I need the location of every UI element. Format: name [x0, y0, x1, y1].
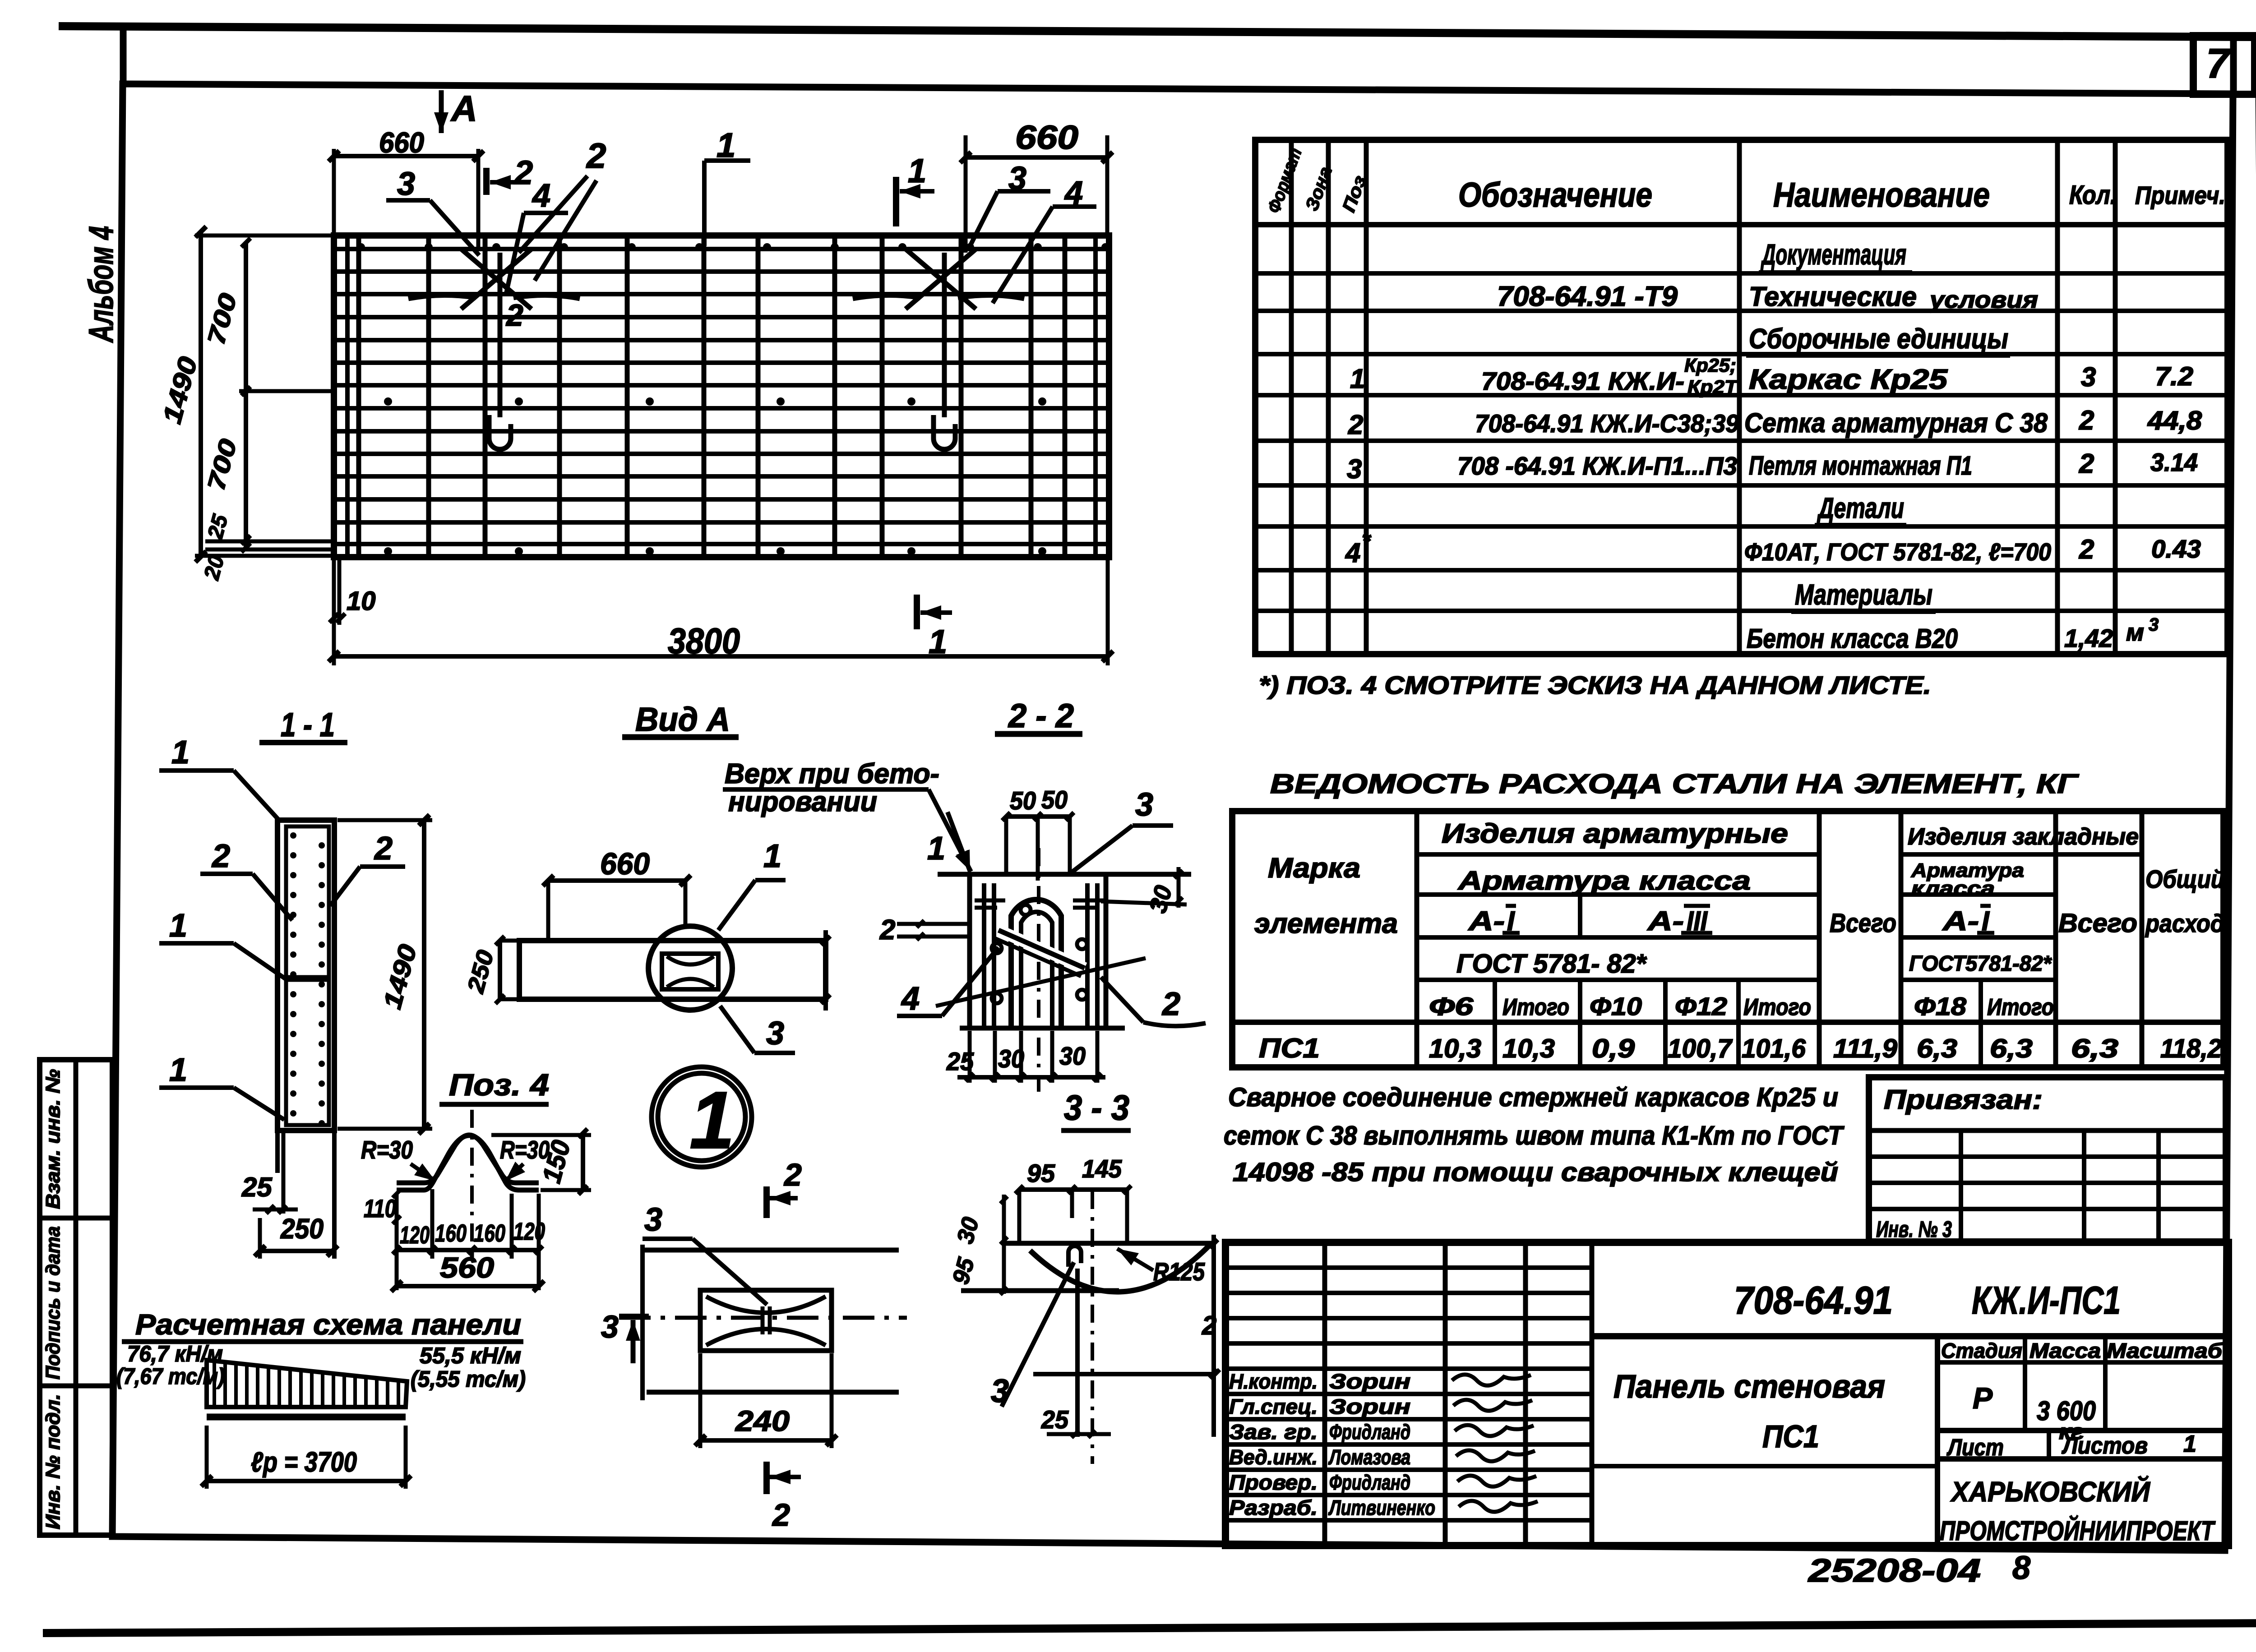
svg-text:3: 3 [991, 1373, 1009, 1409]
dim 25 loop [1047, 1432, 1111, 1436]
note underline and leader arrow [723, 787, 929, 792]
loop sketch small eye [1068, 1246, 1081, 1267]
dim 25 section 1-1 [253, 1208, 298, 1212]
section 1-1 transverse wire dots [290, 832, 296, 839]
section 3-3 recess center notch [761, 1306, 765, 1334]
svg-text:Провер.: Провер. [1229, 1471, 1318, 1494]
sheet number box [2193, 36, 2255, 94]
svg-text:Разраб.: Разраб. [1229, 1496, 1318, 1519]
svg-text:Петля монтажная П1: Петля монтажная П1 [1749, 451, 1972, 480]
loop sketch dim 95 145 [1019, 1187, 1127, 1192]
svg-text:Гл.спец.: Гл.спец. [1229, 1395, 1318, 1418]
section 2-2 left edge [967, 874, 972, 1028]
svg-text:160: 160 [474, 1220, 505, 1247]
mesh horizontal wires [334, 269, 1109, 274]
page top edge line [59, 26, 2251, 37]
title block doc number cell line [1592, 1333, 2228, 1339]
dim 10 bottom-left [337, 559, 342, 625]
dim 95 loop [1002, 1246, 1006, 1294]
svg-text:6,3: 6,3 [1990, 1034, 2033, 1063]
svg-text:3: 3 [397, 166, 415, 202]
section 2-2 right bar [1085, 883, 1090, 1028]
svg-text:2: 2 [513, 154, 533, 191]
svg-text:расход: расход [2145, 909, 2224, 937]
svg-text:ℓр = 3700: ℓр = 3700 [251, 1447, 357, 1478]
svg-text:Расчетная схема панели: Расчетная схема панели [135, 1308, 521, 1341]
svg-text:Технические: Технические [1749, 281, 1917, 312]
svg-text:Стадия: Стадия [1941, 1339, 2022, 1362]
svg-text:1: 1 [171, 734, 190, 771]
svg-text:(5,55 тс/м): (5,55 тс/м) [411, 1366, 526, 1392]
svg-text:55,5 кН/м: 55,5 кН/м [420, 1343, 521, 1368]
svg-text:Масса: Масса [2029, 1339, 2101, 1362]
section mark 1 bottom [914, 595, 920, 629]
svg-text:708-64.91 КЖ.И-: 708-64.91 КЖ.И- [1481, 367, 1684, 395]
svg-text:110: 110 [364, 1194, 396, 1223]
svg-text:3: 3 [644, 1202, 662, 1238]
svg-text:25: 25 [1041, 1405, 1069, 1434]
dim 30 right section 2-2 [1177, 867, 1181, 908]
svg-text:3: 3 [2149, 615, 2159, 635]
svg-text:7: 7 [2206, 41, 2231, 87]
svg-text:120: 120 [400, 1222, 430, 1249]
svg-text:Верх при бето-: Верх при бето- [725, 758, 939, 789]
svg-text:Сетка арматурная С 38: Сетка арматурная С 38 [1744, 408, 2048, 438]
svg-text:50: 50 [1041, 785, 1068, 814]
svg-text:95: 95 [1027, 1159, 1055, 1187]
section mark 1 top [893, 177, 899, 226]
svg-text:Литвиненко: Литвиненко [1328, 1496, 1435, 1519]
left stamp strip divider row 2 [40, 1384, 112, 1389]
svg-text:Итого: Итого [1987, 994, 2054, 1020]
поз.4 centerline [470, 1110, 474, 1250]
svg-text:3 - 3: 3 - 3 [1064, 1088, 1129, 1127]
loop sketch bar line [1075, 1269, 1080, 1437]
svg-text:250: 250 [280, 1214, 324, 1245]
dim 2 gap left [897, 922, 970, 926]
svg-text:Обозначение: Обозначение [1458, 176, 1652, 214]
svg-text:Инв. № подл.: Инв. № подл. [42, 1394, 64, 1529]
svg-text:708-64.91: 708-64.91 [1734, 1279, 1893, 1322]
svg-text:Зав. гр.: Зав. гр. [1229, 1420, 1318, 1444]
section 2-2 bottom extension lines [968, 1031, 972, 1083]
svg-text:25208-04: 25208-04 [1807, 1553, 1981, 1589]
svg-text:Изделия закладные: Изделия закладные [1908, 824, 2139, 850]
section 2-2 right edge [1104, 874, 1109, 1028]
svg-text:м: м [2126, 619, 2144, 646]
dim 250 section 1-1 [260, 1249, 333, 1253]
поз.4 bent bar profile [397, 1135, 539, 1183]
section 2-2 short dashes [975, 899, 1005, 903]
svg-text:А-: А- [1467, 906, 1505, 936]
svg-text:2: 2 [783, 1157, 802, 1192]
svg-text:ГОСТ 5781- 82*: ГОСТ 5781- 82* [1456, 949, 1647, 978]
spec table header row line [1255, 222, 2228, 227]
detail bubble circle [652, 1067, 752, 1167]
title block left row lines [1225, 1265, 1592, 1270]
svg-text:Итого: Итого [1502, 994, 1569, 1020]
section 2-2 top chord line [938, 872, 1191, 877]
section 2-2 left bar [982, 883, 986, 1028]
svg-text:120: 120 [513, 1218, 545, 1245]
svg-text:1,42: 1,42 [2064, 624, 2113, 652]
svg-text:30: 30 [998, 1044, 1024, 1073]
svg-text:3: 3 [2081, 362, 2096, 392]
svg-text:2: 2 [2079, 448, 2094, 479]
svg-text:2: 2 [505, 298, 523, 332]
svg-text:Материалы: Материалы [1795, 578, 1932, 611]
svg-text:Вед.инж.: Вед.инж. [1229, 1445, 1318, 1469]
svg-text:Марка: Марка [1268, 853, 1360, 884]
dim 3800 bottom [334, 654, 1108, 659]
svg-text:3: 3 [766, 1015, 784, 1052]
svg-text:Ф10АТ, ГОСТ 5781-82, ℓ=700: Ф10АТ, ГОСТ 5781-82, ℓ=700 [1744, 539, 2051, 566]
svg-text:Наименование: Наименование [1773, 176, 1990, 214]
view A bar outline [519, 941, 826, 999]
привязан verticals [1959, 1131, 1963, 1241]
svg-text:Р: Р [1973, 1381, 1993, 1415]
left stamp strip box [40, 1060, 112, 1535]
spec table verticals [1289, 140, 1294, 654]
svg-text:2: 2 [2079, 405, 2094, 435]
mesh vertical wires [356, 235, 361, 557]
section 2-2 centerline [1037, 848, 1040, 1092]
svg-text:Фридланд: Фридланд [1329, 1420, 1410, 1444]
svg-text:Кол.: Кол. [2069, 180, 2117, 210]
svg-text:1: 1 [927, 831, 945, 867]
svg-text:ХАРЬКОВСКИЙ: ХАРЬКОВСКИЙ [1950, 1476, 2150, 1508]
svg-text:1: 1 [2183, 1431, 2196, 1457]
dim 150 поз.4 [581, 1133, 585, 1190]
svg-text:Масштаб: Масштаб [2107, 1339, 2223, 1362]
load diagram baseline [207, 1414, 406, 1421]
dim 25 30 30 bottom [957, 1075, 1105, 1080]
svg-text:Примеч.: Примеч. [2135, 181, 2225, 209]
ведомость main verticals [1415, 811, 1419, 1067]
section 3-3 recess curves [706, 1297, 826, 1313]
view A recess rect [662, 954, 718, 989]
ведомость outer [1232, 811, 2224, 1067]
section 2-2 U loop [1011, 900, 1061, 1029]
lifting loop hook [489, 415, 511, 449]
svg-text:2 - 2: 2 - 2 [1008, 697, 1074, 734]
svg-text:Поз. 4: Поз. 4 [449, 1068, 549, 1102]
left stamp strip divider row 1 [40, 1216, 112, 1221]
dim 660 view A [548, 878, 685, 883]
svg-text:1: 1 [908, 152, 926, 189]
lifting loop stem [498, 253, 503, 417]
svg-text:101,6: 101,6 [1742, 1034, 1806, 1063]
section 3-3 top line [641, 1248, 899, 1253]
svg-text:Панель стеновая: Панель стеновая [1613, 1369, 1885, 1405]
svg-text:10: 10 [347, 586, 376, 616]
section 2-2 diagonal anchor bar [995, 930, 1085, 976]
svg-text:Каркас Кр25: Каркас Кр25 [1749, 364, 1948, 395]
view A detail circle [648, 926, 732, 1010]
dim lp=3700 [207, 1479, 406, 1483]
svg-text:0.43: 0.43 [2151, 535, 2201, 563]
dim 250 view A [498, 941, 502, 999]
svg-text:Изделия арматурные: Изделия арматурные [1442, 818, 1788, 849]
привязан header line [1869, 1128, 2226, 1133]
section 1-1 mesh sheet lower [286, 980, 329, 1125]
svg-text:КЖ.И-ПС1: КЖ.И-ПС1 [1972, 1279, 2121, 1322]
view A recess curves [667, 956, 714, 964]
svg-text:Фридланд: Фридланд [1329, 1471, 1410, 1494]
svg-text:25: 25 [241, 1172, 273, 1202]
привязан row lines [1869, 1154, 2226, 1159]
svg-text:50: 50 [1010, 786, 1036, 815]
svg-text:10,3: 10,3 [1429, 1034, 1481, 1063]
svg-text:Ф6: Ф6 [1429, 992, 1474, 1020]
svg-text:0,9: 0,9 [1592, 1034, 1635, 1063]
svg-text:Кр25;: Кр25; [1684, 355, 1736, 376]
svg-text:2: 2 [772, 1497, 790, 1532]
svg-text:Документация: Документация [1761, 238, 1906, 271]
lifting loop cross [461, 249, 532, 309]
svg-text:708 -64.91 КЖ.И-П1...П3: 708 -64.91 КЖ.И-П1...П3 [1457, 452, 1737, 480]
svg-text:Ф18: Ф18 [1914, 992, 1967, 1020]
svg-text:Ф12: Ф12 [1675, 992, 1727, 1020]
svg-text:класса: класса [1911, 877, 1995, 900]
section mark 2 top [483, 168, 490, 195]
svg-text:Зорин: Зорин [1329, 1370, 1410, 1393]
svg-text:560: 560 [440, 1251, 494, 1284]
svg-text:Бетон класса В20: Бетон класса В20 [1747, 623, 1958, 654]
svg-text:R=30: R=30 [361, 1135, 413, 1164]
svg-text:111,9: 111,9 [1833, 1034, 1897, 1063]
svg-text:4: 4 [532, 178, 550, 214]
dim 700 700 25 left [244, 243, 248, 551]
dim 1490 section 1-1 [422, 820, 426, 1129]
svg-text:Итого: Итого [1743, 994, 1811, 1020]
svg-text:1 - 1: 1 - 1 [281, 706, 335, 743]
svg-text:*: * [1362, 528, 1372, 554]
svg-text:Сборочные единицы: Сборочные единицы [1749, 323, 2008, 355]
loop sketch bottom horizontal [1033, 1372, 1215, 1376]
svg-text:Инв. № 3: Инв. № 3 [1876, 1217, 1952, 1242]
svg-text:2: 2 [586, 136, 606, 175]
frame right edge extension to page top [2230, 38, 2237, 96]
svg-text:145: 145 [1082, 1154, 1122, 1183]
title block left verticals [1322, 1242, 1327, 1546]
svg-text:Детали: Детали [1817, 492, 1904, 524]
svg-text:Всего: Всего [1830, 909, 1896, 938]
svg-text:708-64.91 КЖ.И-С38;39: 708-64.91 КЖ.И-С38;39 [1475, 409, 1739, 438]
svg-text:6,3: 6,3 [2071, 1034, 2118, 1063]
section 2-2 bottom chord line [960, 1026, 1125, 1031]
svg-text:2: 2 [1161, 986, 1180, 1022]
ведомость sub verticals [1578, 895, 1582, 937]
svg-text:ГОСТ5781-82*: ГОСТ5781-82* [1909, 952, 2052, 976]
svg-text:ПС1: ПС1 [1259, 1033, 1320, 1063]
lifting loop cross [906, 249, 976, 309]
привязан box [1869, 1077, 2226, 1241]
lifting loop curved dashes [408, 295, 476, 299]
svg-text:7.2: 7.2 [2155, 362, 2193, 391]
section 3-3 left edge [640, 1245, 645, 1400]
page bottom edge line [43, 1623, 2256, 1633]
svg-text:1: 1 [1350, 364, 1365, 394]
svg-text:Листов: Листов [2061, 1433, 2148, 1459]
svg-text:ПС1: ПС1 [1762, 1419, 1819, 1454]
svg-text:условия: условия [1928, 287, 2038, 313]
svg-text:Зорин: Зорин [1329, 1395, 1410, 1418]
frame left edge extension to page top [120, 28, 127, 86]
svg-text:R125: R125 [1153, 1257, 1205, 1286]
svg-text:Сварное соединение стержней: Сварное соединение стержней каркасов Кр2… [1228, 1083, 1838, 1112]
dim 50 50 top [1006, 814, 1070, 819]
svg-text:44,8: 44,8 [2147, 406, 2202, 435]
svg-text:2: 2 [2079, 534, 2094, 564]
section 1-1 outer walls [277, 820, 334, 1131]
svg-text:660: 660 [379, 126, 424, 159]
loop sketch R125 arc [1030, 1244, 1211, 1292]
spec table row lines [1255, 271, 2228, 276]
section 3-3 recess rect [700, 1290, 832, 1351]
svg-text:Взам. инв. №: Взам. инв. № [42, 1069, 64, 1209]
svg-text:4: 4 [1345, 538, 1360, 568]
dim 660 top-left [334, 154, 478, 158]
dim 660 top-right [966, 155, 1107, 160]
title block outer [1225, 1242, 2228, 1546]
svg-text:2: 2 [211, 838, 230, 874]
svg-text:Привязан:: Привязан: [1884, 1084, 2043, 1115]
title block стадия header lines [1935, 1336, 1940, 1546]
ведомость row lines [1417, 852, 1819, 857]
load diagram hatching [213, 1361, 216, 1407]
svg-text:Альбом 4: Альбом 4 [82, 226, 120, 343]
svg-text:10,3: 10,3 [1502, 1034, 1555, 1063]
mesh node dots bottom row [384, 547, 392, 555]
dim 110 поз.4 [395, 1194, 399, 1223]
svg-text:2: 2 [374, 831, 393, 867]
lifting loop hook [934, 415, 955, 449]
svg-text:8: 8 [2012, 1550, 2030, 1586]
dim extension lines left [195, 234, 333, 238]
svg-text:4: 4 [901, 981, 920, 1017]
svg-text:118,2: 118,2 [2160, 1034, 2222, 1063]
left stamp strip divider vertical [74, 1060, 79, 1535]
svg-text:А-: А- [1646, 906, 1684, 936]
svg-text:Общий: Общий [2145, 865, 2224, 893]
load diagram trapezoid [207, 1360, 407, 1407]
loop sketch centerline [1091, 1191, 1094, 1464]
svg-text:Подпись и дата: Подпись и дата [42, 1226, 64, 1380]
svg-text:3: 3 [1135, 787, 1153, 823]
section mark 2 top of 3-3 [763, 1186, 770, 1218]
svg-text:25: 25 [946, 1047, 974, 1075]
section 2-2 bar section dots [1021, 905, 1031, 915]
svg-text:2: 2 [1348, 410, 1363, 440]
svg-text:1: 1 [763, 838, 781, 874]
svg-text:А-: А- [1942, 906, 1979, 936]
svg-text:3: 3 [601, 1309, 619, 1344]
loop sketch right dim line [1211, 1235, 1216, 1437]
svg-text:1: 1 [929, 623, 947, 660]
svg-text:660: 660 [1015, 119, 1078, 156]
panel outline [334, 235, 1109, 557]
svg-text:1: 1 [169, 1052, 187, 1088]
svg-text:3: 3 [1347, 454, 1362, 484]
svg-text:2: 2 [879, 914, 895, 946]
svg-text:Лист: Лист [1946, 1435, 2004, 1461]
svg-text:Всего: Всего [2058, 909, 2137, 938]
dim 560 поз.4 [397, 1284, 539, 1288]
lifting loop curved dashes [853, 295, 920, 299]
lifting loop stem [942, 253, 947, 417]
svg-text:30: 30 [1059, 1042, 1086, 1070]
loop sketch top line [1004, 1241, 1213, 1246]
svg-text:ВЕДОМОСТЬ РАСХОДА СТАЛИ Н: ВЕДОМОСТЬ РАСХОДА СТАЛИ НА ЭЛЕМЕНТ, КГ [1270, 769, 2080, 799]
svg-text:2: 2 [1202, 1311, 1216, 1340]
svg-text:Арматура класса: Арматура класса [1457, 866, 1751, 895]
svg-text:240: 240 [735, 1405, 790, 1437]
svg-text:100,7: 100,7 [1668, 1034, 1733, 1063]
view A bar right end ticks [823, 930, 828, 1011]
section 1-1 mesh sheet upper [286, 826, 329, 977]
mesh node dots top row [357, 243, 365, 251]
section 2-2 long thin diagonal [936, 958, 1146, 1006]
svg-text:14098 -85 при помощи сваро: 14098 -85 при помощи сварочных клещей [1233, 1158, 1838, 1187]
svg-text:1: 1 [689, 1075, 735, 1166]
dim 30 loop [1002, 1195, 1006, 1246]
section 3-3 centerline [619, 1316, 907, 1320]
mesh border wires [334, 247, 1109, 251]
dim 120 160 160 120 [397, 1248, 539, 1252]
svg-text:6,3: 6,3 [1917, 1034, 1957, 1063]
svg-text:3.14: 3.14 [2150, 448, 2198, 476]
svg-text:Ломазова: Ломазова [1328, 1445, 1410, 1469]
dim 1490 left [199, 232, 203, 557]
svg-text:Н.контр.: Н.контр. [1229, 1370, 1318, 1393]
svg-text:708-64.91 -Т9: 708-64.91 -Т9 [1497, 281, 1678, 312]
spec table outer [1255, 140, 2228, 654]
section 3-3 bottom line [647, 1390, 899, 1395]
svg-text:элемента: элемента [1254, 908, 1398, 939]
svg-text:*) ПОЗ. 4 СМОТРИТЕ ЭСКИЗ: *) ПОЗ. 4 СМОТРИТЕ ЭСКИЗ НА ДАННОМ ЛИСТЕ… [1259, 671, 1931, 699]
svg-text:Кр2Т: Кр2Т [1687, 376, 1739, 397]
svg-text:Вид А: Вид А [635, 701, 730, 738]
svg-text:Ф10: Ф10 [1590, 992, 1642, 1020]
svg-text:А: А [450, 88, 477, 129]
svg-text:3800: 3800 [668, 621, 740, 661]
section 1-1 bottom toe lines [275, 1131, 280, 1173]
section mark 2 bottom of 3-3 [763, 1462, 770, 1494]
svg-text:1: 1 [169, 908, 187, 944]
svg-text:ПРОМСТРОЙНИИПРОЕКТ: ПРОМСТРОЙНИИПРОЕКТ [1940, 1515, 2215, 1546]
loop sketch second line [961, 1288, 1119, 1293]
svg-text:сеток С 38 выполнять швом т: сеток С 38 выполнять швом типа К1-Кт по … [1224, 1121, 1845, 1150]
view arrow A [439, 90, 444, 133]
dim 240 [700, 1438, 832, 1443]
svg-text:660: 660 [600, 847, 650, 881]
mesh node dots middle row [384, 397, 392, 406]
svg-text:160: 160 [435, 1220, 467, 1247]
